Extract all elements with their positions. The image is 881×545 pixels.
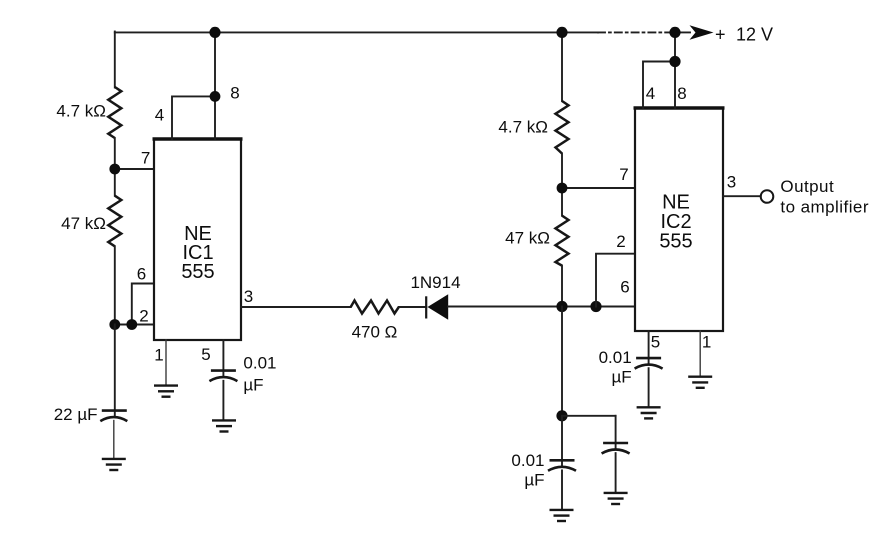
wire IC1 pin 1 [165,340,167,386]
svg-text:555: 555 [181,261,214,283]
wire C4 to ground [561,470,563,510]
wire IC1 pin 5 [222,340,224,375]
resistor R1 4.7 kOhm [108,87,121,138]
ground below C1 [102,459,126,470]
wire IC2 pin 1 [699,331,701,377]
wire mid column rail to R4 [561,32,563,102]
wire C3 to ground [648,368,650,407]
svg-text:22 µF: 22 µF [54,405,98,424]
wire left column R2 to pin2 node [114,246,116,324]
svg-text:4: 4 [155,106,164,125]
node junction mid pin7 [557,183,568,194]
power arrow +12 V [690,25,714,40]
svg-text:+: + [715,24,726,44]
svg-text:Output: Output [780,177,834,196]
svg-text:to amplifier: to amplifier [780,197,869,216]
ground below C2 [212,420,236,431]
capacitor C4 0.01 uF bottom [548,460,576,471]
svg-text:2: 2 [139,307,148,326]
svg-text:1: 1 [702,333,711,352]
resistor R3 470 Ohm [351,301,399,314]
output terminal circle [761,190,774,203]
node junction pin4-pin8 IC1 [210,91,221,102]
svg-text:2: 2 [616,232,625,251]
wire IC2 pin 2 loop [596,254,635,307]
capacitor C1 22 uF [100,411,127,422]
capacitor C2 0.01 uF [209,371,237,382]
ground IC1 pin 1 [154,386,178,397]
wire IC1 pin 8 vertical [214,32,216,139]
svg-text:1: 1 [154,346,163,365]
svg-text:3: 3 [244,287,253,306]
svg-text:5: 5 [651,333,660,352]
ground below C4 [550,510,574,521]
capacitor C3 0.01 uF [635,358,663,369]
resistor R4 4.7 kOhm mid [556,101,569,154]
wire C5 to ground [615,453,617,493]
op-amp/timer U1 NE555 IC1 box [153,139,243,340]
node junction rail mid column [556,27,567,38]
wire R4 to pin7 node [561,154,563,216]
wire left column top [114,32,116,88]
wire IC1 pin 2 [115,324,154,326]
wire bottom node horizontal branch [562,415,616,417]
wire diode to mid node / IC2 pin 6 [448,306,635,308]
wire IC2 pin 4 loop [643,62,675,109]
op-amp/timer U2 NE555 IC2 box [634,108,725,331]
wire IC2 pin 5 [648,331,650,363]
wire IC1 pin 3 output [241,306,351,308]
wire R3 to diode [399,306,426,308]
wire R5 to mid node [561,266,563,307]
resistor R5 47 kOhm mid [556,216,569,266]
wire branch down to C5 [615,416,617,448]
ground below C5 [604,493,628,504]
svg-text:µF: µF [243,375,263,394]
svg-text:12 V: 12 V [736,24,773,44]
svg-text:µF: µF [524,471,544,490]
wire IC2 pin 3 output [723,195,761,197]
capacitor C5 [602,443,630,454]
resistor R2 47 kOhm [108,196,121,247]
svg-text:4: 4 [646,84,655,103]
wire C2 to ground [222,381,224,421]
wire C1 to ground [113,421,115,459]
wire IC2 pin 7 [562,187,635,189]
node junction left pin7 [109,164,120,175]
svg-text:4.7 kΩ: 4.7 kΩ [498,118,548,137]
node junction left pin2 [109,319,120,330]
svg-text:8: 8 [230,84,239,103]
svg-text:0.01: 0.01 [599,348,632,367]
node junction pin2 loop IC2 [590,301,601,312]
wire mid node down to bottom node [561,307,563,416]
svg-text:7: 7 [141,149,150,168]
svg-text:4.7 kΩ: 4.7 kΩ [56,102,106,121]
node junction bottom [556,410,567,421]
node junction rail-pin8 IC1 [209,27,220,38]
wire IC2 pin 8 vertical [674,32,676,108]
node junction pin4-pin8 IC2 [669,56,680,67]
svg-text:555: 555 [659,231,692,253]
wire left column R1 to R2 [114,138,116,196]
svg-text:470 Ω: 470 Ω [352,323,398,342]
svg-text:6: 6 [620,278,629,297]
svg-text:47 kΩ: 47 kΩ [61,214,106,233]
node junction pin6-pin2 loop [126,319,137,330]
wire left column down to C1 [114,325,116,416]
svg-text:3: 3 [727,173,736,192]
wire IC1 pin 7 [115,168,154,170]
svg-text:7: 7 [619,165,628,184]
svg-text:0.01: 0.01 [511,451,544,470]
node junction rail IC2 supply [669,27,680,38]
svg-text:1N914: 1N914 [410,273,460,292]
svg-text:6: 6 [137,265,146,284]
svg-text:0.01: 0.01 [243,353,276,372]
ground below C3 [637,407,661,418]
svg-text:8: 8 [677,84,686,103]
label + 12 V [715,24,773,44]
wire +12V top rail [115,31,690,33]
node junction diode-R5 [556,301,567,312]
svg-text:47 kΩ: 47 kΩ [505,229,550,248]
ground IC2 pin 1 [688,377,712,388]
wire IC1 pin 6 loop [132,284,154,325]
wire IC1 pin 4 loop [172,96,215,139]
svg-text:5: 5 [201,345,210,364]
diode D1 1N914 [426,294,448,319]
svg-text:µF: µF [612,368,632,387]
wire bottom node to C4 [561,416,563,465]
